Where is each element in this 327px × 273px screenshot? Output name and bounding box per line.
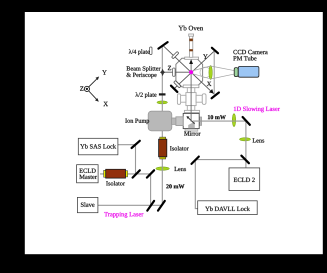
mirror on slowing beam: [243, 117, 250, 125]
ion pump gray body: [148, 111, 183, 131]
lambda/4 plate on Z beam: [173, 68, 176, 76]
lens right of chamber (imaging): [209, 65, 212, 79]
text lambda/2 plate: [136, 92, 157, 98]
frame label X: [103, 102, 108, 106]
text Yb Oven: [179, 26, 204, 31]
cross bottom plate: [184, 110, 199, 112]
cross left flange: [177, 94, 180, 105]
text & Periscope: [127, 73, 157, 78]
mirror bottom-right of chamber: [212, 93, 219, 99]
text ECLD: [79, 169, 95, 173]
chamber axis label X: [207, 82, 212, 86]
Yb oven tube: [189, 34, 194, 57]
text PM Tube: [233, 56, 256, 61]
beam: SAS vertical: [135, 145, 137, 175]
text 1D Slowing Laser: [234, 107, 280, 113]
text Master: [79, 175, 97, 179]
beam: master horizontal: [100, 173, 151, 175]
text Ion Pump: [125, 119, 149, 124]
box Yb DAVLL Lock: [198, 201, 258, 215]
lambda/4 plate on Y diagonal: [174, 81, 181, 88]
text Isolator vertical: [170, 146, 189, 150]
lens on slowing beam vertical: [239, 138, 250, 141]
beam: SAS horizontal: [118, 144, 136, 146]
beam: Z axis into chamber: [163, 71, 191, 73]
text Beam Splitter: [127, 66, 161, 72]
text Isolator horizontal: [106, 181, 125, 185]
injection mirror on slave line: [147, 201, 154, 211]
text CCD Camera: [233, 50, 267, 54]
mirror to DAVLL lock: [192, 157, 199, 164]
box ECLD Master: [77, 165, 99, 183]
chamber axis label Z: [168, 66, 171, 70]
coordinate axes: [84, 77, 99, 102]
lens on slowing beam horizontal: [232, 114, 235, 127]
text 10 mW: [208, 115, 226, 119]
beamsplitter after master isolator: [133, 170, 140, 177]
retro mirror bottom-left: [171, 86, 177, 92]
beam: master injection vertical: [150, 174, 152, 205]
lambda/4 legend plate: [150, 47, 152, 55]
mirror master down: [147, 170, 154, 177]
beam: slowing laser up through chamber: [190, 63, 192, 122]
cross right flange: [202, 94, 206, 105]
beam: Y diagonal: [174, 51, 214, 89]
text Yb DAVLL Lock: [205, 207, 250, 212]
lens on trapping beam lower: [156, 167, 170, 170]
frame label Z: [80, 86, 83, 90]
mirror top of trapping beam: [158, 42, 167, 49]
text Trapping Laser: [104, 212, 143, 218]
beam: X diagonal: [163, 46, 214, 95]
cross neck upper: [187, 88, 195, 93]
beam splitter and periscope symbol: [160, 69, 165, 76]
cross right arm: [196, 95, 202, 102]
text Mirror: [184, 132, 200, 136]
chamber bottom flange: [183, 85, 199, 88]
box Slave: [77, 197, 98, 212]
beam: slave to fold mirror: [98, 204, 162, 206]
beam: DAVLL horizontal: [195, 159, 246, 161]
text Lens right: [253, 138, 265, 142]
horizontal isolator: [104, 169, 128, 178]
box ECLD 2: [229, 168, 260, 191]
lambda/4 plate on X diagonal: [172, 51, 179, 58]
slowing beam arrowhead: [189, 59, 193, 64]
beam: main trapping vertical: [161, 46, 163, 206]
beam: slowing horizontal: [193, 120, 246, 122]
beam: slowing vertical to ECLD2: [245, 121, 247, 168]
mirror top-right of chamber: [212, 48, 218, 53]
CCD camera body: [234, 66, 259, 77]
text 20 mW: [166, 184, 184, 188]
mirror box below cross: [183, 113, 201, 131]
cross center cube: [186, 93, 196, 106]
MOT centre dot: [189, 70, 193, 74]
beamsplitter mirror above ECLD2: [241, 156, 249, 164]
box Yb SAS Lock: [78, 138, 118, 155]
text Yb SAS Lock: [80, 144, 116, 149]
text Slave: [81, 202, 95, 207]
text Lens left: [174, 167, 186, 171]
cross neck lower: [187, 106, 195, 111]
cross left arm: [180, 95, 186, 102]
imaging cone: [192, 66, 235, 79]
fold mirror slave beam up: [158, 201, 165, 211]
beam: DAVLL vertical: [195, 160, 197, 209]
lens on trapping beam upper: [157, 101, 168, 104]
chamber top flange: [185, 57, 199, 59]
beam: right fold vertical: [213, 51, 215, 95]
text lambda/4 plate: [129, 49, 150, 55]
text ECLD 2: [234, 178, 255, 182]
X diagonal arrowhead: [209, 89, 214, 94]
frame label Y: [102, 70, 107, 74]
chamber right viewport circle: [200, 67, 211, 78]
mirror to SAS lock: [132, 141, 140, 148]
chamber axis label Y: [203, 54, 208, 58]
vacuum chamber octagon: [176, 58, 203, 87]
vertical isolator: [159, 137, 167, 159]
lambda/2 plate bar: [159, 93, 166, 95]
